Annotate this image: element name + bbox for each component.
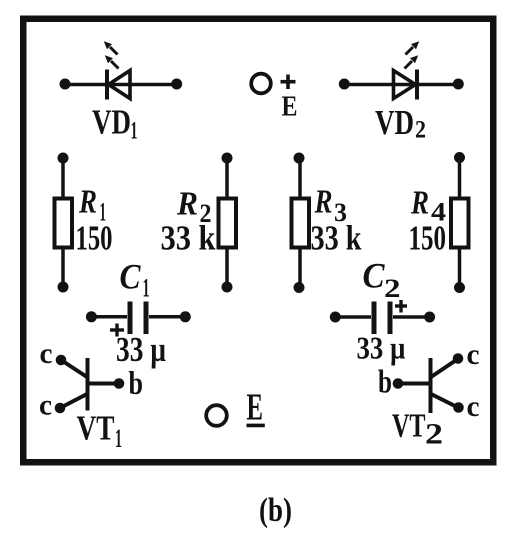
pin dot b: [393, 378, 404, 389]
polarity plus: [110, 328, 124, 331]
svg-text:2: 2: [415, 117, 426, 144]
svg-text:33 µ: 33 µ: [357, 331, 406, 366]
svg-text:C: C: [120, 257, 142, 297]
svg-text:b: b: [129, 366, 144, 402]
anode triangle: [109, 71, 131, 99]
emitter lead: [60, 394, 87, 408]
terminal dot: [330, 312, 341, 323]
svg-text:c: c: [467, 338, 480, 371]
light arrow 2: [405, 61, 413, 69]
base bar: [429, 358, 433, 413]
svg-text:(b): (b): [259, 492, 292, 529]
terminal dot: [222, 282, 233, 293]
svg-text:VD: VD: [375, 103, 414, 142]
terminal dot: [424, 312, 435, 323]
svg-text:C: C: [363, 256, 386, 296]
pin dot c: [453, 353, 464, 364]
terminal dot: [222, 153, 233, 164]
wire: [149, 315, 185, 319]
pin dot b: [114, 378, 125, 389]
body: [55, 199, 73, 248]
svg-text:b: b: [378, 365, 392, 401]
base lead: [398, 382, 429, 386]
svg-text:c: c: [467, 390, 480, 423]
base lead: [89, 382, 119, 386]
terminal dot: [453, 79, 464, 90]
body: [292, 199, 310, 248]
transistor VT2: [393, 353, 464, 413]
wire: [65, 83, 177, 87]
svg-text:33 µ: 33 µ: [116, 330, 166, 369]
anode triangle: [394, 71, 416, 99]
terminal -E: [206, 387, 265, 429]
terminal dot: [294, 282, 305, 293]
wire: [344, 83, 458, 87]
wire: [458, 248, 462, 288]
light arrow 2: [111, 61, 119, 69]
polarity plus: [395, 304, 407, 307]
wire: [91, 315, 127, 319]
terminal dot: [180, 311, 191, 322]
svg-text:R: R: [410, 185, 429, 222]
svg-text:2: 2: [425, 418, 443, 451]
terminal dot: [454, 152, 465, 163]
pin dot c: [453, 402, 464, 413]
terminal dot: [86, 311, 97, 322]
terminal dot: [454, 282, 465, 293]
LED VD2: [339, 41, 464, 99]
resistor R2: [219, 153, 237, 293]
emitter lead: [431, 394, 458, 408]
svg-text:R: R: [314, 184, 333, 221]
pin dot c: [56, 355, 67, 366]
terminal circle: [206, 405, 227, 426]
svg-text:R: R: [176, 186, 198, 223]
plate: [372, 302, 377, 335]
resistor R4: [451, 152, 469, 293]
svg-text:c: c: [39, 389, 52, 422]
wire: [61, 158, 65, 198]
plus sign: [281, 80, 296, 84]
svg-text:33 k: 33 k: [161, 218, 216, 257]
body: [451, 199, 469, 248]
svg-text:E: E: [247, 387, 264, 429]
wire: [458, 158, 462, 198]
svg-text:2: 2: [384, 274, 401, 303]
LED VD1: [60, 41, 183, 99]
terminal dot: [60, 79, 71, 90]
svg-text:VT: VT: [77, 409, 115, 448]
collector lead: [61, 360, 87, 377]
svg-text:33 k: 33 k: [311, 218, 362, 257]
terminal dot: [339, 79, 350, 90]
wire: [225, 248, 229, 288]
plate: [128, 302, 133, 335]
plate: [144, 302, 149, 335]
base bar: [86, 358, 90, 411]
terminal dot: [294, 153, 305, 164]
svg-text:1: 1: [131, 118, 138, 145]
cathode bar: [415, 70, 419, 100]
transistor VT1: [55, 355, 125, 414]
body: [219, 199, 237, 248]
terminal dot: [171, 79, 182, 90]
plate: [388, 302, 393, 335]
light arrow 1: [110, 47, 118, 55]
svg-text:R: R: [78, 184, 97, 221]
terminal dot: [58, 282, 69, 293]
wire: [335, 315, 371, 319]
svg-text:VT: VT: [392, 408, 426, 445]
svg-text:E: E: [282, 91, 298, 123]
svg-text:1: 1: [115, 424, 122, 453]
wire: [298, 158, 302, 198]
svg-text:150: 150: [76, 218, 113, 257]
wire: [298, 248, 302, 288]
wire: [61, 248, 65, 288]
resistor R3: [292, 153, 310, 294]
wire: [225, 158, 229, 198]
terminal circle: [251, 74, 271, 94]
terminal +E: [251, 74, 297, 123]
capacitor C2: [330, 300, 435, 334]
svg-text:1: 1: [143, 274, 150, 303]
cathode bar: [105, 70, 109, 100]
resistor R1: [55, 153, 73, 293]
svg-text:VD: VD: [92, 103, 131, 142]
border frame (decorative): [23, 19, 493, 463]
collector lead: [431, 360, 457, 378]
terminal dot: [58, 153, 69, 164]
wire: [393, 315, 430, 319]
svg-text:c: c: [40, 337, 53, 370]
capacitor C1: [86, 302, 191, 337]
light arrow 1: [406, 47, 414, 55]
svg-text:150: 150: [409, 218, 447, 257]
pin dot c: [55, 403, 66, 414]
